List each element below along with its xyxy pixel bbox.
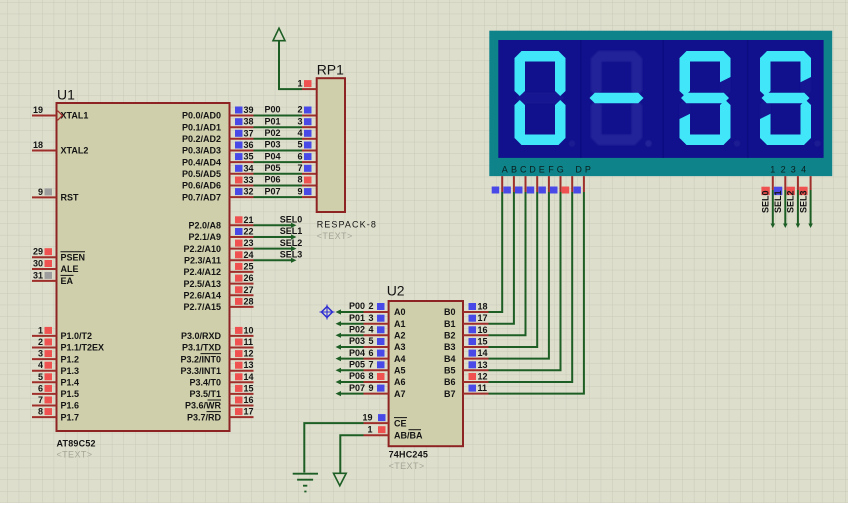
svg-text:P04: P04 <box>349 348 365 358</box>
U1 pin 5 P1.4 <box>32 372 79 388</box>
U1 pin 21 P2.0/A8 <box>188 215 253 231</box>
svg-text:P0.7/AD7: P0.7/AD7 <box>182 192 221 202</box>
svg-text:C: C <box>520 164 527 174</box>
svg-text:P1.7: P1.7 <box>61 412 80 422</box>
svg-text:B3: B3 <box>444 342 456 352</box>
svg-text:24: 24 <box>244 250 254 260</box>
svg-text:P2.0/A8: P2.0/A8 <box>188 221 221 231</box>
U2 pin 18 B0 <box>444 302 489 318</box>
svg-text:11: 11 <box>478 383 488 393</box>
display digit pin 2 wire net SEL1 <box>773 176 788 228</box>
display digit separator 3 <box>747 40 749 158</box>
U1 pin 39 P0.0/AD0 <box>182 105 254 121</box>
U1 pin 10 P3.0/RXD <box>181 325 254 341</box>
wire net SEL2 at U1 P2.2 <box>254 238 303 251</box>
U1 pin 17 P3.7/RD <box>187 407 254 423</box>
svg-text:B1: B1 <box>444 319 456 329</box>
svg-text:5: 5 <box>297 140 302 150</box>
U1 pin 13 P3.3/INT1 <box>180 360 253 376</box>
svg-text:2: 2 <box>368 301 373 311</box>
svg-text:P2.5/A13: P2.5/A13 <box>183 279 221 289</box>
svg-text:38: 38 <box>244 117 254 127</box>
U1 pin 12 P3.2/INT0 <box>180 349 253 365</box>
svg-text:7: 7 <box>38 395 43 405</box>
svg-text:8: 8 <box>297 175 302 185</box>
wire net P01 U1 to RP1 pin 3 <box>254 116 317 127</box>
svg-text:P2.3/A11: P2.3/A11 <box>184 256 221 266</box>
U1 pin 35 P0.4/AD4 <box>182 152 254 168</box>
svg-text:P1.1/T2EX: P1.1/T2EX <box>61 343 105 353</box>
svg-text:A2: A2 <box>394 331 406 341</box>
svg-text:3: 3 <box>791 164 796 174</box>
U1 pin 27 P2.6/A14 <box>183 285 253 301</box>
display inner panel <box>498 40 823 158</box>
resistor pack RP1 body <box>317 78 345 212</box>
svg-text:1: 1 <box>367 424 372 434</box>
svg-text:B0: B0 <box>444 307 456 317</box>
svg-text:P06: P06 <box>349 371 365 381</box>
svg-text:P: P <box>585 164 591 174</box>
svg-text:74HC245: 74HC245 <box>389 450 428 460</box>
U1 pin 9 RST <box>32 187 79 203</box>
display segment pin F wire to U2 B5 <box>489 176 561 370</box>
svg-text:P0.3/AD3: P0.3/AD3 <box>182 146 221 156</box>
svg-text:P00: P00 <box>265 105 281 115</box>
svg-text:P0.1/AD1: P0.1/AD1 <box>182 122 221 132</box>
svg-text:9: 9 <box>297 186 302 196</box>
svg-text:<TEXT>: <TEXT> <box>317 231 353 241</box>
U1 pin 32 P0.7/AD7 <box>182 187 254 203</box>
U2 pin 16 B2 <box>444 325 489 341</box>
svg-text:13: 13 <box>244 360 254 370</box>
svg-text:33: 33 <box>244 175 254 185</box>
svg-text:P1.3: P1.3 <box>61 366 80 376</box>
svg-text:P01: P01 <box>265 116 281 126</box>
svg-text:P2.4/A12: P2.4/A12 <box>183 267 221 277</box>
ground symbol (bars) <box>293 474 318 492</box>
svg-text:21: 21 <box>244 215 254 225</box>
U1 pin 4 P1.3 <box>32 360 79 376</box>
U1 pin 6 P1.5 <box>32 383 79 399</box>
svg-text:AT89C52: AT89C52 <box>57 439 96 449</box>
svg-text:P0.5/AD5: P0.5/AD5 <box>182 169 221 179</box>
U1 pin 15 P3.5/T1 <box>189 383 253 399</box>
U1 pin 1 P1.0/T2 <box>32 325 92 341</box>
U1 XTAL1 clock chevron <box>58 111 63 121</box>
svg-text:P0.0/AD0: P0.0/AD0 <box>182 111 221 121</box>
svg-text:4: 4 <box>38 360 43 370</box>
wire net P04 U1 to RP1 pin 6 <box>254 151 317 162</box>
svg-text:6: 6 <box>38 383 43 393</box>
svg-text:P2.2/A10: P2.2/A10 <box>183 244 221 254</box>
svg-text:25: 25 <box>244 261 254 271</box>
display digit separator 1 <box>580 40 582 158</box>
svg-text:23: 23 <box>244 238 254 248</box>
svg-text:P2.6/A14: P2.6/A14 <box>183 291 221 301</box>
U1 pin 19 XTAL1 <box>32 105 88 121</box>
svg-text:B5: B5 <box>444 366 456 376</box>
svg-text:A6: A6 <box>394 377 406 387</box>
svg-text:1: 1 <box>770 164 775 174</box>
svg-text:P06: P06 <box>265 175 281 185</box>
svg-text:P3.0/RXD: P3.0/RXD <box>181 331 222 341</box>
svg-text:5: 5 <box>38 372 43 382</box>
svg-text:P07: P07 <box>349 383 365 393</box>
svg-text:P03: P03 <box>265 140 281 150</box>
svg-text:16: 16 <box>478 325 488 335</box>
svg-text:AB/BA: AB/BA <box>394 430 423 440</box>
svg-text:P0.4/AD4: P0.4/AD4 <box>182 157 221 167</box>
svg-text:29: 29 <box>33 247 43 257</box>
svg-text:D: D <box>529 164 536 174</box>
svg-text:1: 1 <box>38 325 43 335</box>
svg-text:XTAL1: XTAL1 <box>61 111 89 121</box>
U2 pin 17 B1 <box>444 313 489 329</box>
display segment pin A wire to U2 B0 <box>489 176 503 312</box>
svg-text:6: 6 <box>368 348 373 358</box>
svg-text:B2: B2 <box>444 331 456 341</box>
display segment pin B wire to U2 B1 <box>489 176 514 324</box>
svg-text:18: 18 <box>478 302 488 312</box>
U1 pin 38 P0.1/AD1 <box>182 117 254 133</box>
display segment pin C wire to U2 B2 <box>489 176 526 335</box>
svg-text:EA: EA <box>61 276 74 286</box>
svg-text:36: 36 <box>244 140 254 150</box>
U2 pin 7 A5 wire net P05 <box>336 360 406 376</box>
display segment pin D wire to U2 B3 <box>489 176 538 347</box>
U1 pin 23 P2.2/A10 <box>183 238 253 254</box>
U1 pin 8 P1.7 <box>32 407 79 423</box>
svg-text:SEL0: SEL0 <box>761 190 771 213</box>
svg-text:A: A <box>502 164 508 174</box>
ic U2 74HC245 body <box>389 301 463 446</box>
display digit 2 showing - <box>590 51 652 147</box>
svg-text:22: 22 <box>244 227 254 237</box>
U1 pin 31 EA <box>32 270 74 286</box>
svg-text:14: 14 <box>244 372 254 382</box>
svg-text:B4: B4 <box>444 354 456 364</box>
U2 pin 14 B4 <box>444 348 489 364</box>
svg-text:3: 3 <box>368 313 373 323</box>
U1 pin 18 XTAL2 <box>32 140 88 156</box>
svg-text:ALE: ALE <box>61 264 79 274</box>
svg-text:P3.5/T1: P3.5/T1 <box>189 389 221 399</box>
power terminal VCC arrow <box>273 28 285 41</box>
svg-text:7: 7 <box>297 163 302 173</box>
svg-text:P05: P05 <box>265 163 281 173</box>
svg-text:32: 32 <box>244 187 254 197</box>
U1 pin 24 P2.3/A11 <box>184 250 254 266</box>
U1 pin 29 PSEN <box>32 247 85 263</box>
U1 pin 37 P0.2/AD2 <box>182 128 254 144</box>
U2 pin 2 A0 wire net P00 <box>336 301 406 317</box>
svg-text:A1: A1 <box>394 319 406 329</box>
wire net P06 U1 to RP1 pin 8 <box>254 175 317 186</box>
svg-text:P01: P01 <box>349 313 365 323</box>
display digit 4 showing 5 <box>760 51 821 147</box>
U2 pin 4 A2 wire net P02 <box>336 325 406 341</box>
wire net P05 U1 to RP1 pin 7 <box>254 163 317 174</box>
U2 pin 5 A3 wire net P03 <box>336 336 406 352</box>
svg-text:SEL1: SEL1 <box>280 226 303 236</box>
U1 pin 28 P2.7/A15 <box>183 296 253 312</box>
U1 pin 16 P3.6/WR <box>185 395 254 411</box>
svg-text:P07: P07 <box>265 186 281 196</box>
svg-text:RST: RST <box>61 193 80 203</box>
svg-text:19: 19 <box>33 105 43 115</box>
U1 pin 2 P1.1/T2EX <box>32 337 104 353</box>
svg-text:12: 12 <box>478 372 488 382</box>
svg-text:SEL1: SEL1 <box>773 190 783 213</box>
svg-text:P04: P04 <box>265 151 281 161</box>
U2 pin 15 B3 <box>444 337 489 353</box>
svg-text:35: 35 <box>244 152 254 162</box>
display digit pin 4 wire net SEL3 <box>798 176 813 228</box>
wire VCC to RP1 pin 1 <box>279 41 302 89</box>
svg-text:P0.2/AD2: P0.2/AD2 <box>182 134 221 144</box>
U1 pin 34 P0.5/AD5 <box>182 163 254 179</box>
display digit separator 2 <box>662 40 664 158</box>
svg-text:4: 4 <box>801 164 806 174</box>
svg-text:34: 34 <box>244 163 254 173</box>
svg-text:3: 3 <box>38 349 43 359</box>
svg-text:4: 4 <box>297 128 302 138</box>
svg-text:P3.3/INT1: P3.3/INT1 <box>180 366 221 376</box>
wire net P03 U1 to RP1 pin 5 <box>254 140 317 151</box>
display digit 3 showing 5 <box>680 51 741 147</box>
display segment pin E wire to U2 B4 <box>489 176 549 359</box>
svg-text:31: 31 <box>33 270 43 280</box>
U1 pin 14 P3.4/T0 <box>189 372 253 388</box>
U2 pin 8 A6 wire net P06 <box>336 371 406 387</box>
U1 pin 25 P2.4/A12 <box>183 261 253 277</box>
svg-text:P3.4/T0: P3.4/T0 <box>189 378 221 388</box>
svg-text:P1.2: P1.2 <box>61 354 80 364</box>
svg-text:P2.7/A15: P2.7/A15 <box>183 302 221 312</box>
svg-text:2: 2 <box>297 105 302 115</box>
U2 pin 9 A7 wire net P07 <box>336 383 406 399</box>
wire U2 CE to ground <box>304 423 363 472</box>
svg-text:G: G <box>557 164 564 174</box>
svg-text:D: D <box>575 164 582 174</box>
svg-text:P3.7/RD: P3.7/RD <box>187 412 222 422</box>
origin marker diamond <box>320 305 335 320</box>
svg-text:P1.5: P1.5 <box>61 389 80 399</box>
svg-text:A3: A3 <box>394 342 406 352</box>
svg-text:P2.1/A9: P2.1/A9 <box>188 232 221 242</box>
svg-text:1: 1 <box>297 78 302 88</box>
U1 pin 3 P1.2 <box>32 349 79 365</box>
svg-text:7: 7 <box>368 360 373 370</box>
svg-text:37: 37 <box>244 128 254 138</box>
svg-text:2: 2 <box>781 164 786 174</box>
U1 pin 30 ALE <box>32 259 79 275</box>
svg-text:9: 9 <box>38 187 43 197</box>
svg-text:SEL2: SEL2 <box>280 238 303 248</box>
U1 pin 7 P1.6 <box>32 395 79 411</box>
svg-text:B: B <box>511 164 517 174</box>
svg-text:4: 4 <box>368 325 373 335</box>
svg-text:P3.1/TXD: P3.1/TXD <box>182 343 222 353</box>
svg-text:15: 15 <box>244 383 254 393</box>
svg-text:P1.6: P1.6 <box>61 401 80 411</box>
svg-text:U1: U1 <box>57 87 75 103</box>
wire net SEL1 at U1 P2.1 <box>254 226 303 239</box>
svg-text:U2: U2 <box>387 283 405 299</box>
svg-text:12: 12 <box>244 349 254 359</box>
svg-text:<TEXT>: <TEXT> <box>57 450 93 460</box>
svg-text:9: 9 <box>368 383 373 393</box>
wire net SEL0 at U1 P2.0 <box>254 215 303 228</box>
U1 pin 22 P2.1/A9 <box>188 227 253 243</box>
svg-text:P0.6/AD6: P0.6/AD6 <box>182 181 221 191</box>
svg-text:13: 13 <box>478 360 488 370</box>
wire U2 AB/BA to ground arrow <box>340 435 363 473</box>
svg-text:SEL2: SEL2 <box>786 190 796 213</box>
svg-text:P05: P05 <box>349 360 365 370</box>
wire net SEL3 at U1 P2.3 <box>254 250 303 263</box>
svg-text:30: 30 <box>33 259 43 269</box>
svg-text:P00: P00 <box>349 301 365 311</box>
svg-text:B7: B7 <box>444 389 456 399</box>
svg-text:SEL3: SEL3 <box>280 250 303 260</box>
display digit 1 showing 0 <box>515 51 576 147</box>
U2 pin 12 B6 <box>444 372 489 388</box>
svg-text:P02: P02 <box>265 128 281 138</box>
svg-text:8: 8 <box>368 371 373 381</box>
U2 pin 11 B7 <box>444 383 489 399</box>
U2 pin 19 CE <box>362 412 407 428</box>
display label ABCDEFG DP <box>502 164 591 174</box>
svg-text:B6: B6 <box>444 377 456 387</box>
U2 pin 6 A4 wire net P04 <box>336 348 406 364</box>
display digit pin 3 wire net SEL2 <box>786 176 801 228</box>
display DS1 outer frame <box>489 31 832 176</box>
svg-text:SEL0: SEL0 <box>280 215 303 225</box>
display segment pin G wire to U2 B6 <box>489 176 573 382</box>
svg-text:P3.2/INT0: P3.2/INT0 <box>180 354 221 364</box>
svg-text:P3.6/WR: P3.6/WR <box>185 401 222 411</box>
wire net P00 U1 to RP1 pin 2 <box>254 105 317 116</box>
U2 pin 1 AB/BA <box>364 424 423 440</box>
U1 pin 33 P0.6/AD6 <box>182 175 254 191</box>
svg-text:27: 27 <box>244 285 254 295</box>
svg-text:5: 5 <box>368 336 373 346</box>
svg-text:E: E <box>539 164 545 174</box>
svg-text:RESPACK-8: RESPACK-8 <box>317 220 377 230</box>
svg-text:P1.0/T2: P1.0/T2 <box>61 331 93 341</box>
svg-text:16: 16 <box>244 395 254 405</box>
svg-text:28: 28 <box>244 296 254 306</box>
svg-text:A5: A5 <box>394 366 406 376</box>
svg-text:P1.4: P1.4 <box>61 378 80 388</box>
svg-text:A7: A7 <box>394 389 406 399</box>
display segment pin DP wire to U2 B7 <box>489 176 584 394</box>
svg-text:F: F <box>548 164 554 174</box>
RP1 pin 1 <box>297 78 316 89</box>
wire net P02 U1 to RP1 pin 4 <box>254 128 317 139</box>
svg-text:11: 11 <box>244 337 254 347</box>
svg-text:14: 14 <box>478 348 488 358</box>
U1 pin 36 P0.3/AD3 <box>182 140 254 156</box>
svg-text:18: 18 <box>33 140 43 150</box>
svg-text:15: 15 <box>478 337 488 347</box>
U2 pin 3 A1 wire net P01 <box>336 313 406 329</box>
svg-text:19: 19 <box>362 412 372 422</box>
svg-text:17: 17 <box>244 407 254 417</box>
svg-text:6: 6 <box>297 151 302 161</box>
svg-text:P03: P03 <box>349 336 365 346</box>
wire net P07 U1 to RP1 pin 9 <box>254 186 317 197</box>
svg-text:A0: A0 <box>394 307 406 317</box>
svg-text:PSEN: PSEN <box>61 252 86 262</box>
svg-text:A4: A4 <box>394 354 406 364</box>
ground terminal (arrow) <box>334 473 347 485</box>
svg-text:3: 3 <box>297 116 302 126</box>
svg-text:P02: P02 <box>349 325 365 335</box>
svg-text:10: 10 <box>244 325 254 335</box>
U1 pin 26 P2.5/A13 <box>183 273 253 289</box>
display digit pin 1 wire net SEL0 <box>761 176 776 228</box>
svg-text:XTAL2: XTAL2 <box>61 146 89 156</box>
svg-text:39: 39 <box>244 105 254 115</box>
U2 pin 13 B5 <box>444 360 489 376</box>
svg-text:<TEXT>: <TEXT> <box>389 461 425 471</box>
display label 1234 <box>770 164 806 174</box>
U1 pin 11 P3.1/TXD <box>182 337 254 353</box>
ic U1 AT89C52 body <box>57 103 230 431</box>
svg-text:17: 17 <box>478 313 488 323</box>
svg-text:8: 8 <box>38 407 43 417</box>
svg-text:2: 2 <box>38 337 43 347</box>
svg-text:26: 26 <box>244 273 254 283</box>
svg-text:RP1: RP1 <box>317 62 344 78</box>
svg-text:SEL3: SEL3 <box>798 190 808 213</box>
svg-text:CE: CE <box>394 418 407 428</box>
